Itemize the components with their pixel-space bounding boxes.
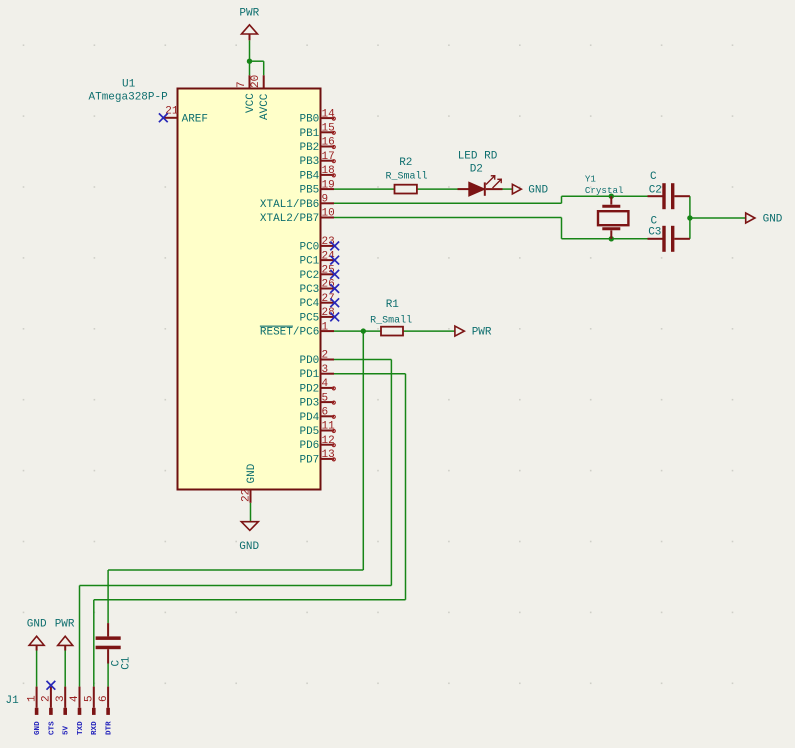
svg-text:XTAL2/PB7: XTAL2/PB7 (260, 213, 319, 225)
wire PB5 to R2 (334, 188, 395, 190)
pin 24 PC1 (299, 250, 335, 267)
no-connect PC4 (330, 298, 339, 307)
wire C2/C3 common to GND (690, 196, 746, 239)
svg-text:VCC: VCC (245, 93, 257, 113)
svg-text:PC5: PC5 (299, 312, 319, 324)
svg-text:R_Small: R_Small (385, 171, 427, 183)
pin 28 PC5 (299, 307, 334, 324)
capacitor C2 (648, 171, 690, 209)
power symbol PWR (above J1 pin 3) (55, 619, 75, 651)
svg-text:PD4: PD4 (299, 412, 319, 424)
svg-text:14: 14 (322, 108, 336, 120)
wire R2 to LED D2 anode (417, 188, 458, 190)
pin 13 PD7 (299, 449, 335, 466)
svg-text:DTR: DTR (106, 721, 114, 735)
svg-text:9: 9 (322, 194, 329, 206)
svg-text:GND: GND (528, 185, 548, 197)
svg-text:RESET/PC6: RESET/PC6 (260, 327, 319, 339)
svg-text:PWR: PWR (55, 619, 75, 631)
svg-text:24: 24 (322, 250, 336, 262)
svg-text:11: 11 (322, 421, 336, 433)
svg-text:PD0: PD0 (299, 355, 319, 367)
pin 16 PB2 (299, 137, 335, 154)
svg-text:2: 2 (322, 350, 329, 362)
svg-text:PC2: PC2 (299, 270, 319, 282)
svg-text:3: 3 (55, 695, 67, 702)
pin 21 AREF (163, 106, 208, 126)
svg-text:C3: C3 (648, 226, 661, 238)
svg-text:19: 19 (322, 179, 335, 191)
pin 3 5V (J1) (55, 687, 71, 735)
no-connect PC3 (330, 284, 339, 293)
svg-text:GND: GND (34, 721, 42, 735)
LED D2 (458, 151, 503, 196)
svg-text:PB2: PB2 (299, 142, 319, 154)
pin 4 TXD (J1) (69, 687, 85, 735)
svg-text:23: 23 (322, 236, 335, 248)
wire PWR symbol to J1 pin 3 (64, 651, 66, 687)
no-connect PC2 (330, 270, 339, 279)
svg-text:RXD: RXD (91, 721, 99, 735)
svg-text:25: 25 (322, 265, 335, 277)
pin 6 DTR (J1) (98, 687, 114, 735)
svg-text:1: 1 (322, 321, 329, 333)
svg-text:PD3: PD3 (299, 398, 319, 410)
svg-text:PB0: PB0 (299, 114, 319, 126)
pin 25 PC2 (299, 265, 334, 282)
svg-text:PD6: PD6 (299, 440, 319, 452)
no-connect PC1 (330, 256, 339, 265)
power symbol GND (below U1) (239, 522, 259, 553)
svg-text:R_Small: R_Small (370, 314, 412, 326)
svg-text:PWR: PWR (472, 327, 492, 339)
pin 22 GND (U1 bottom) (240, 463, 258, 503)
svg-text:PD1: PD1 (299, 369, 319, 381)
wire LED cathode to GND (503, 188, 513, 190)
pin 26 PC3 (299, 279, 334, 296)
svg-text:10: 10 (322, 208, 335, 220)
svg-text:22: 22 (240, 489, 252, 502)
svg-text:ATmega328P-P: ATmega328P-P (89, 92, 169, 104)
no-connect CTS (47, 681, 56, 690)
svg-text:6: 6 (322, 407, 329, 419)
svg-text:4: 4 (322, 378, 329, 390)
svg-text:GND: GND (763, 214, 783, 226)
svg-text:2: 2 (41, 695, 53, 702)
svg-text:LED RD: LED RD (458, 151, 498, 163)
svg-text:PC3: PC3 (299, 284, 319, 296)
wire XTAL1/PB6 to crystal top (334, 196, 648, 203)
wire RESET/PC6 to R1 and PWR (334, 330, 455, 332)
pin 4 PD2 (299, 378, 335, 395)
svg-text:R2: R2 (399, 157, 412, 169)
svg-text:Y1: Y1 (585, 174, 597, 185)
no-connect AREF (159, 113, 168, 122)
svg-text:XTAL1/PB6: XTAL1/PB6 (260, 199, 319, 211)
svg-text:PD2: PD2 (299, 383, 319, 395)
svg-text:C1: C1 (121, 656, 133, 670)
svg-text:C: C (650, 171, 657, 183)
svg-text:D2: D2 (470, 163, 483, 175)
capacitor C1 (96, 623, 133, 670)
svg-text:1: 1 (26, 695, 38, 702)
wire C1 to DTR pin 6 (107, 664, 109, 687)
svg-text:26: 26 (322, 279, 335, 291)
power symbol GND (right of C2/C3) (746, 213, 783, 226)
pin 7 VCC (236, 75, 257, 113)
pin 5 RXD (J1) (84, 687, 100, 735)
pin 19 PB5 (299, 179, 334, 196)
power symbol GND (above J1 pin 1) (27, 619, 47, 651)
wire XTAL2/PB7 to crystal bottom (334, 218, 648, 239)
pin 18 PB4 (299, 165, 335, 182)
svg-text:7: 7 (236, 81, 248, 88)
pin 3 PD1 (299, 364, 334, 381)
svg-text:GND: GND (246, 463, 258, 483)
power symbol PWR (right of R1) (455, 326, 492, 339)
svg-text:27: 27 (322, 293, 335, 305)
svg-text:J1: J1 (6, 695, 20, 707)
svg-text:Crystal: Crystal (585, 185, 624, 196)
svg-text:TXD: TXD (77, 721, 85, 735)
pin 11 PD5 (299, 421, 335, 438)
pin 23 PC0 (299, 236, 334, 253)
svg-text:21: 21 (165, 106, 179, 118)
svg-text:PC1: PC1 (299, 256, 319, 268)
wire MCU GND pin to GND symbol (250, 503, 252, 522)
pin 27 PC4 (299, 293, 334, 310)
op-amp U1 body ATmega328P-P (89, 79, 321, 490)
pin 5 PD3 (299, 392, 335, 409)
svg-text:5: 5 (84, 695, 96, 702)
junction C2/C3 node (687, 215, 692, 220)
pin 6 PD4 (299, 407, 335, 424)
svg-text:GND: GND (27, 619, 47, 631)
pin 12 PD6 (299, 435, 335, 452)
svg-text:PC0: PC0 (299, 241, 319, 253)
svg-text:28: 28 (322, 307, 335, 319)
wire PWR to VCC/AVCC (250, 40, 264, 75)
crystal Y1 (585, 174, 629, 239)
junction RESET node (361, 328, 366, 333)
pin 9 XTAL1 PB6 (260, 194, 334, 211)
svg-text:4: 4 (69, 695, 81, 702)
svg-text:PWR: PWR (239, 7, 259, 19)
svg-text:5: 5 (322, 392, 329, 404)
svg-text:6: 6 (98, 695, 110, 702)
resistor R2 (385, 157, 427, 194)
svg-text:PB3: PB3 (299, 156, 319, 168)
connector J1 label (6, 695, 20, 707)
pin 10 XTAL2 PB7 (260, 208, 335, 225)
power symbol PWR (top) (239, 7, 259, 40)
svg-text:AVCC: AVCC (259, 93, 271, 120)
pin 15 PB1 (299, 123, 335, 140)
svg-text:3: 3 (322, 364, 329, 376)
svg-text:PB4: PB4 (299, 170, 319, 182)
svg-text:AREF: AREF (182, 113, 208, 125)
svg-text:R1: R1 (386, 299, 400, 311)
svg-text:C2: C2 (649, 185, 662, 197)
svg-text:PB1: PB1 (299, 128, 319, 140)
svg-text:CTS: CTS (48, 721, 56, 735)
pin 1 GND (J1) (26, 687, 42, 735)
svg-text:PC4: PC4 (299, 298, 319, 310)
wire GND symbol to J1 pin 1 (36, 651, 38, 687)
svg-text:PD7: PD7 (299, 454, 319, 466)
junction crystal bottom node (609, 236, 614, 241)
svg-text:PD5: PD5 (299, 426, 319, 438)
svg-text:GND: GND (239, 541, 259, 553)
junction crystal top node (609, 194, 614, 199)
pin 2 CTS (J1) (41, 687, 57, 735)
pin 17 PB3 (299, 151, 335, 168)
capacitor C3 (648, 216, 690, 252)
pin 2 PD0 (299, 350, 334, 367)
pin 20 AVCC (250, 75, 271, 120)
wire PD0 to TXD (80, 360, 392, 687)
power symbol GND (right of LED) (512, 184, 548, 196)
svg-text:20: 20 (250, 75, 262, 88)
svg-text:PB5: PB5 (299, 185, 319, 197)
wire PD1 to RXD (94, 374, 406, 687)
svg-text:U1: U1 (122, 79, 136, 91)
junction VCC node (247, 59, 252, 64)
no-connect PC0 (330, 242, 339, 251)
no-connect PC5 (330, 313, 339, 322)
resistor R1 (370, 299, 412, 336)
wire RESET net to DTR via C1 (108, 331, 363, 623)
pin 1 RESET PC6 (260, 321, 334, 338)
pin 14 PB0 (299, 108, 335, 125)
svg-text:5V: 5V (63, 725, 71, 735)
